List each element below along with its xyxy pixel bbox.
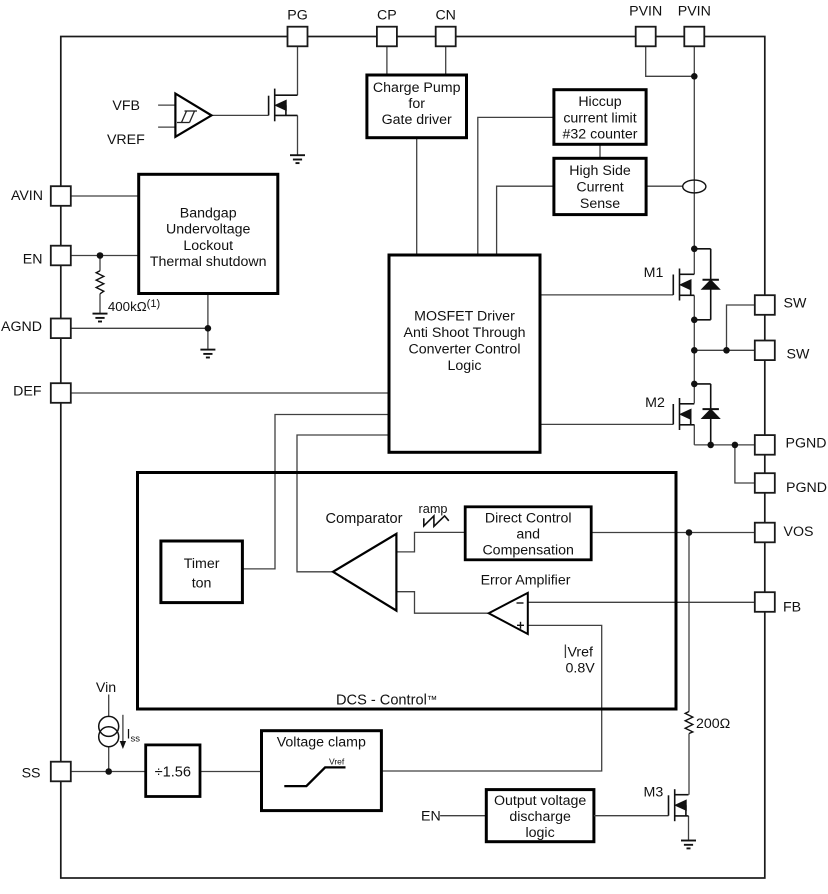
svg-text:M2: M2 [645, 395, 665, 411]
svg-text:EN: EN [421, 808, 441, 824]
svg-text:Error Amplifier: Error Amplifier [481, 573, 571, 589]
svg-text:ton: ton [192, 575, 212, 591]
svg-text:DEF: DEF [13, 384, 42, 400]
svg-text:PVIN: PVIN [629, 3, 662, 19]
svg-text:200Ω: 200Ω [696, 716, 730, 732]
svg-text:Vin: Vin [96, 680, 116, 696]
svg-text:Output voltage: Output voltage [494, 793, 586, 809]
svg-text:Gate driver: Gate driver [382, 112, 452, 128]
svg-text:Charge Pump: Charge Pump [373, 80, 461, 96]
svg-text:Converter Control: Converter Control [409, 341, 521, 357]
svg-text:EN: EN [23, 252, 43, 268]
svg-text:Bandgap: Bandgap [180, 206, 237, 222]
svg-text:VFB: VFB [112, 98, 140, 114]
svg-text:PVIN: PVIN [678, 3, 711, 19]
svg-text:Vref: Vref [568, 645, 594, 661]
svg-text:SS: SS [22, 765, 41, 781]
svg-text:Undervoltage: Undervoltage [166, 222, 251, 238]
svg-text:SW: SW [787, 347, 810, 363]
svg-text:VOS: VOS [784, 524, 814, 540]
svg-text:logic: logic [526, 825, 555, 841]
svg-text:VREF: VREF [107, 132, 145, 148]
svg-text:#32 counter: #32 counter [563, 127, 638, 143]
svg-text:current limit: current limit [563, 110, 636, 126]
svg-text:M1: M1 [644, 265, 664, 281]
svg-text:PGND: PGND [786, 435, 827, 451]
svg-text:AVIN: AVIN [11, 188, 43, 204]
svg-text:High Side: High Side [569, 163, 631, 179]
svg-text:Direct Control: Direct Control [485, 510, 572, 526]
svg-text:PGND: PGND [786, 480, 827, 496]
svg-text:Vref: Vref [329, 756, 345, 766]
svg-text:AGND: AGND [1, 319, 42, 335]
svg-text:ramp: ramp [419, 502, 448, 516]
svg-text:for: for [408, 96, 425, 112]
svg-text:Lockout: Lockout [183, 238, 233, 254]
svg-text:Hiccup: Hiccup [578, 94, 621, 110]
svg-text:and: and [516, 526, 540, 542]
svg-text:DCS - Control™: DCS - Control™ [336, 693, 437, 709]
svg-text:Compensation: Compensation [482, 542, 574, 558]
svg-text:Voltage clamp: Voltage clamp [277, 735, 366, 751]
svg-text:PG: PG [287, 8, 308, 24]
svg-text:Sense: Sense [580, 196, 620, 212]
svg-text:CP: CP [377, 8, 397, 24]
svg-text:Logic: Logic [448, 358, 482, 374]
svg-text:Thermal shutdown: Thermal shutdown [150, 254, 267, 270]
svg-text:FB: FB [783, 599, 801, 615]
svg-text:÷1.56: ÷1.56 [155, 764, 191, 780]
svg-text:discharge: discharge [509, 809, 571, 825]
svg-text:0.8V: 0.8V [566, 660, 596, 676]
svg-text:CN: CN [435, 8, 456, 24]
svg-text:ss: ss [131, 734, 141, 745]
svg-text:Current: Current [576, 180, 623, 196]
svg-text:SW: SW [784, 296, 807, 312]
svg-text:M3: M3 [644, 785, 664, 801]
svg-text:Timer: Timer [184, 556, 220, 572]
svg-text:Comparator: Comparator [325, 511, 402, 527]
svg-text:MOSFET Driver: MOSFET Driver [414, 309, 515, 325]
svg-text:Anti Shoot Through: Anti Shoot Through [404, 325, 526, 341]
